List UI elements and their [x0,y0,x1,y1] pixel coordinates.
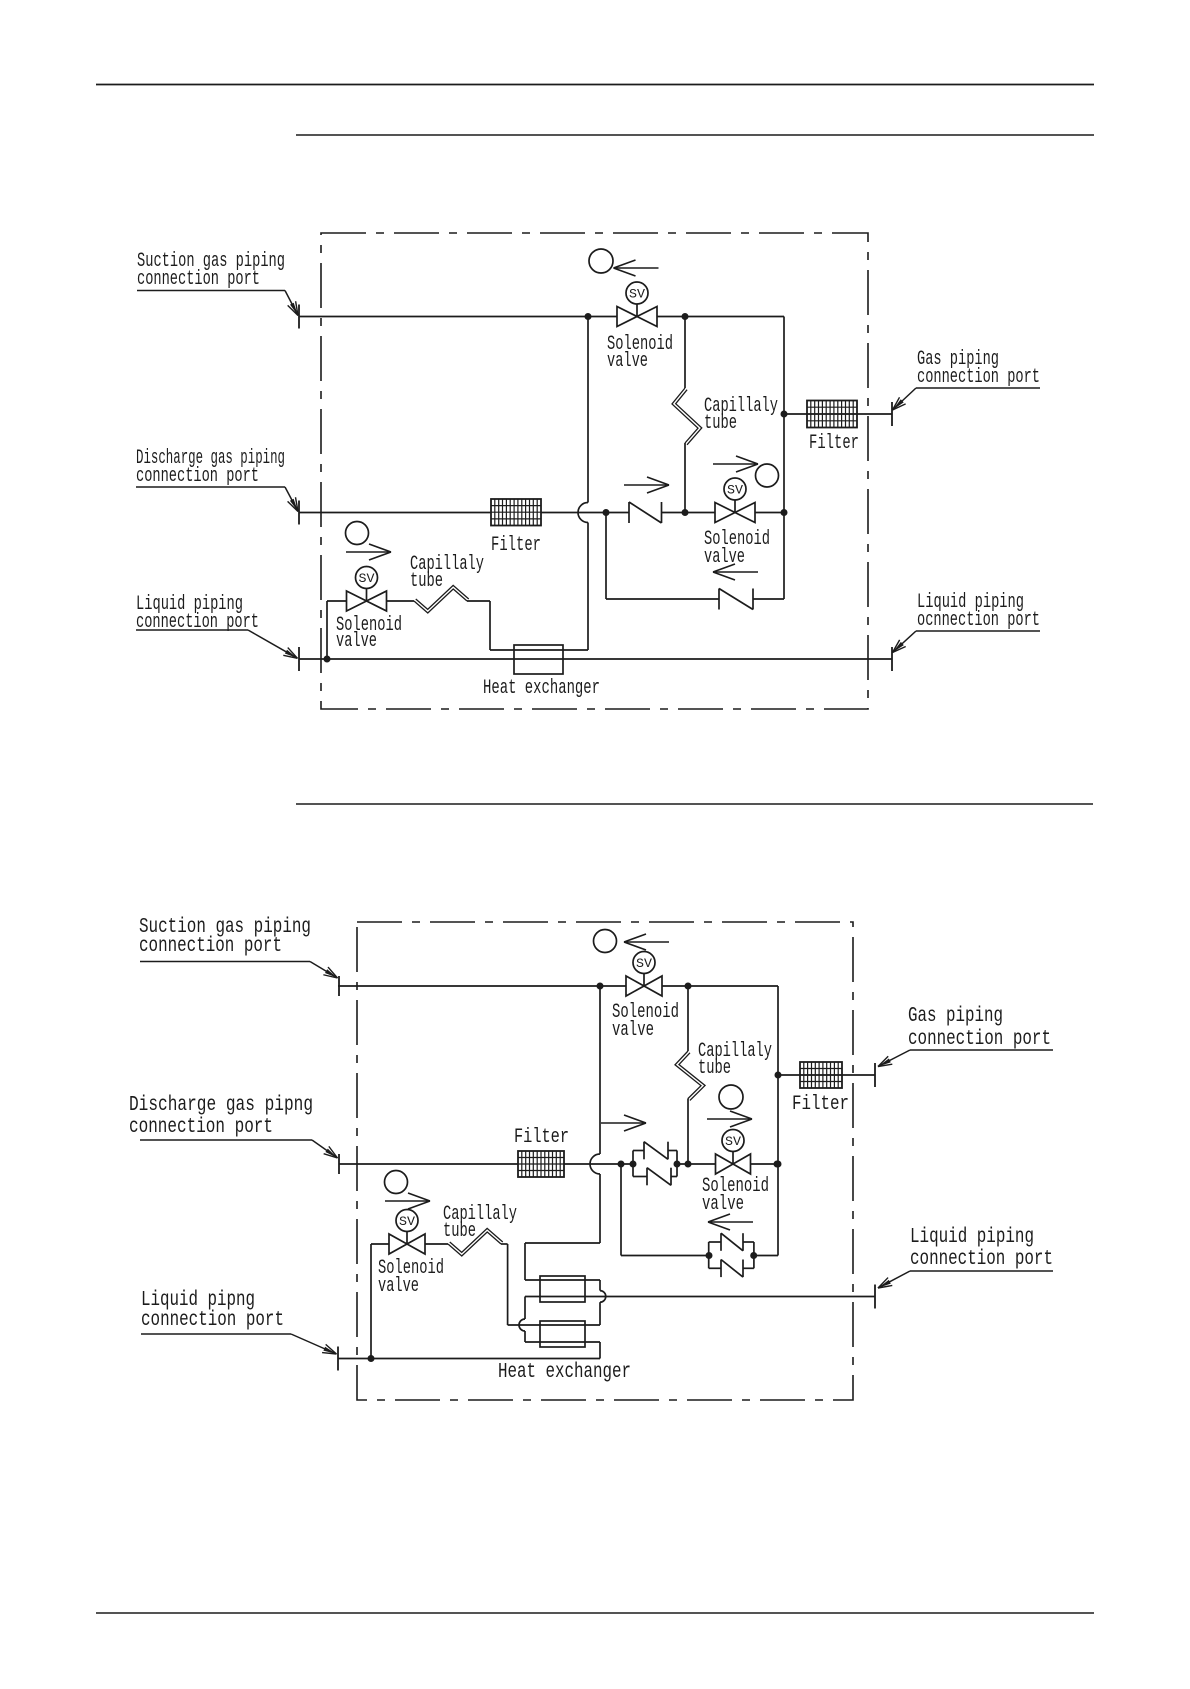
svg-text:Filter: Filter [809,432,859,455]
svg-text:Filter: Filter [491,534,541,557]
svg-text:connection port: connection port [910,1247,1053,1271]
svg-text:valve: valve [704,546,745,569]
svg-text:valve: valve [336,630,377,653]
svg-text:connection port: connection port [139,934,282,958]
svg-text:tube: tube [698,1057,731,1080]
svg-text:SV: SV [399,1214,415,1229]
svg-text:Liquid piping: Liquid piping [910,1225,1034,1249]
svg-text:SV: SV [636,956,652,971]
svg-text:valve: valve [607,350,648,373]
svg-text:tube: tube [704,412,737,435]
svg-text:Filter: Filter [514,1126,569,1149]
svg-text:connection port: connection port [141,1308,284,1332]
svg-text:Heat exchanger: Heat exchanger [483,677,600,700]
svg-text:Filter: Filter [792,1093,849,1116]
svg-text:SV: SV [727,483,743,498]
svg-text:connection port: connection port [129,1115,273,1139]
svg-text:valve: valve [378,1275,419,1298]
svg-text:SV: SV [725,1134,741,1149]
svg-text:Heat exchanger: Heat exchanger [498,1361,631,1384]
svg-text:connection port: connection port [136,465,259,488]
svg-text:Gas piping: Gas piping [908,1004,1003,1028]
svg-text:connection port: connection port [908,1027,1051,1051]
svg-text:tube: tube [410,570,443,593]
svg-text:SV: SV [359,571,375,586]
svg-text:Discharge gas pipng: Discharge gas pipng [129,1093,313,1117]
svg-text:valve: valve [702,1193,744,1216]
svg-text:SV: SV [629,287,645,302]
svg-text:connection port: connection port [917,366,1040,389]
svg-text:ocnnection port: ocnnection port [917,609,1040,632]
svg-text:connection port: connection port [137,268,260,291]
svg-text:valve: valve [612,1019,654,1042]
svg-text:tube: tube [443,1220,476,1243]
